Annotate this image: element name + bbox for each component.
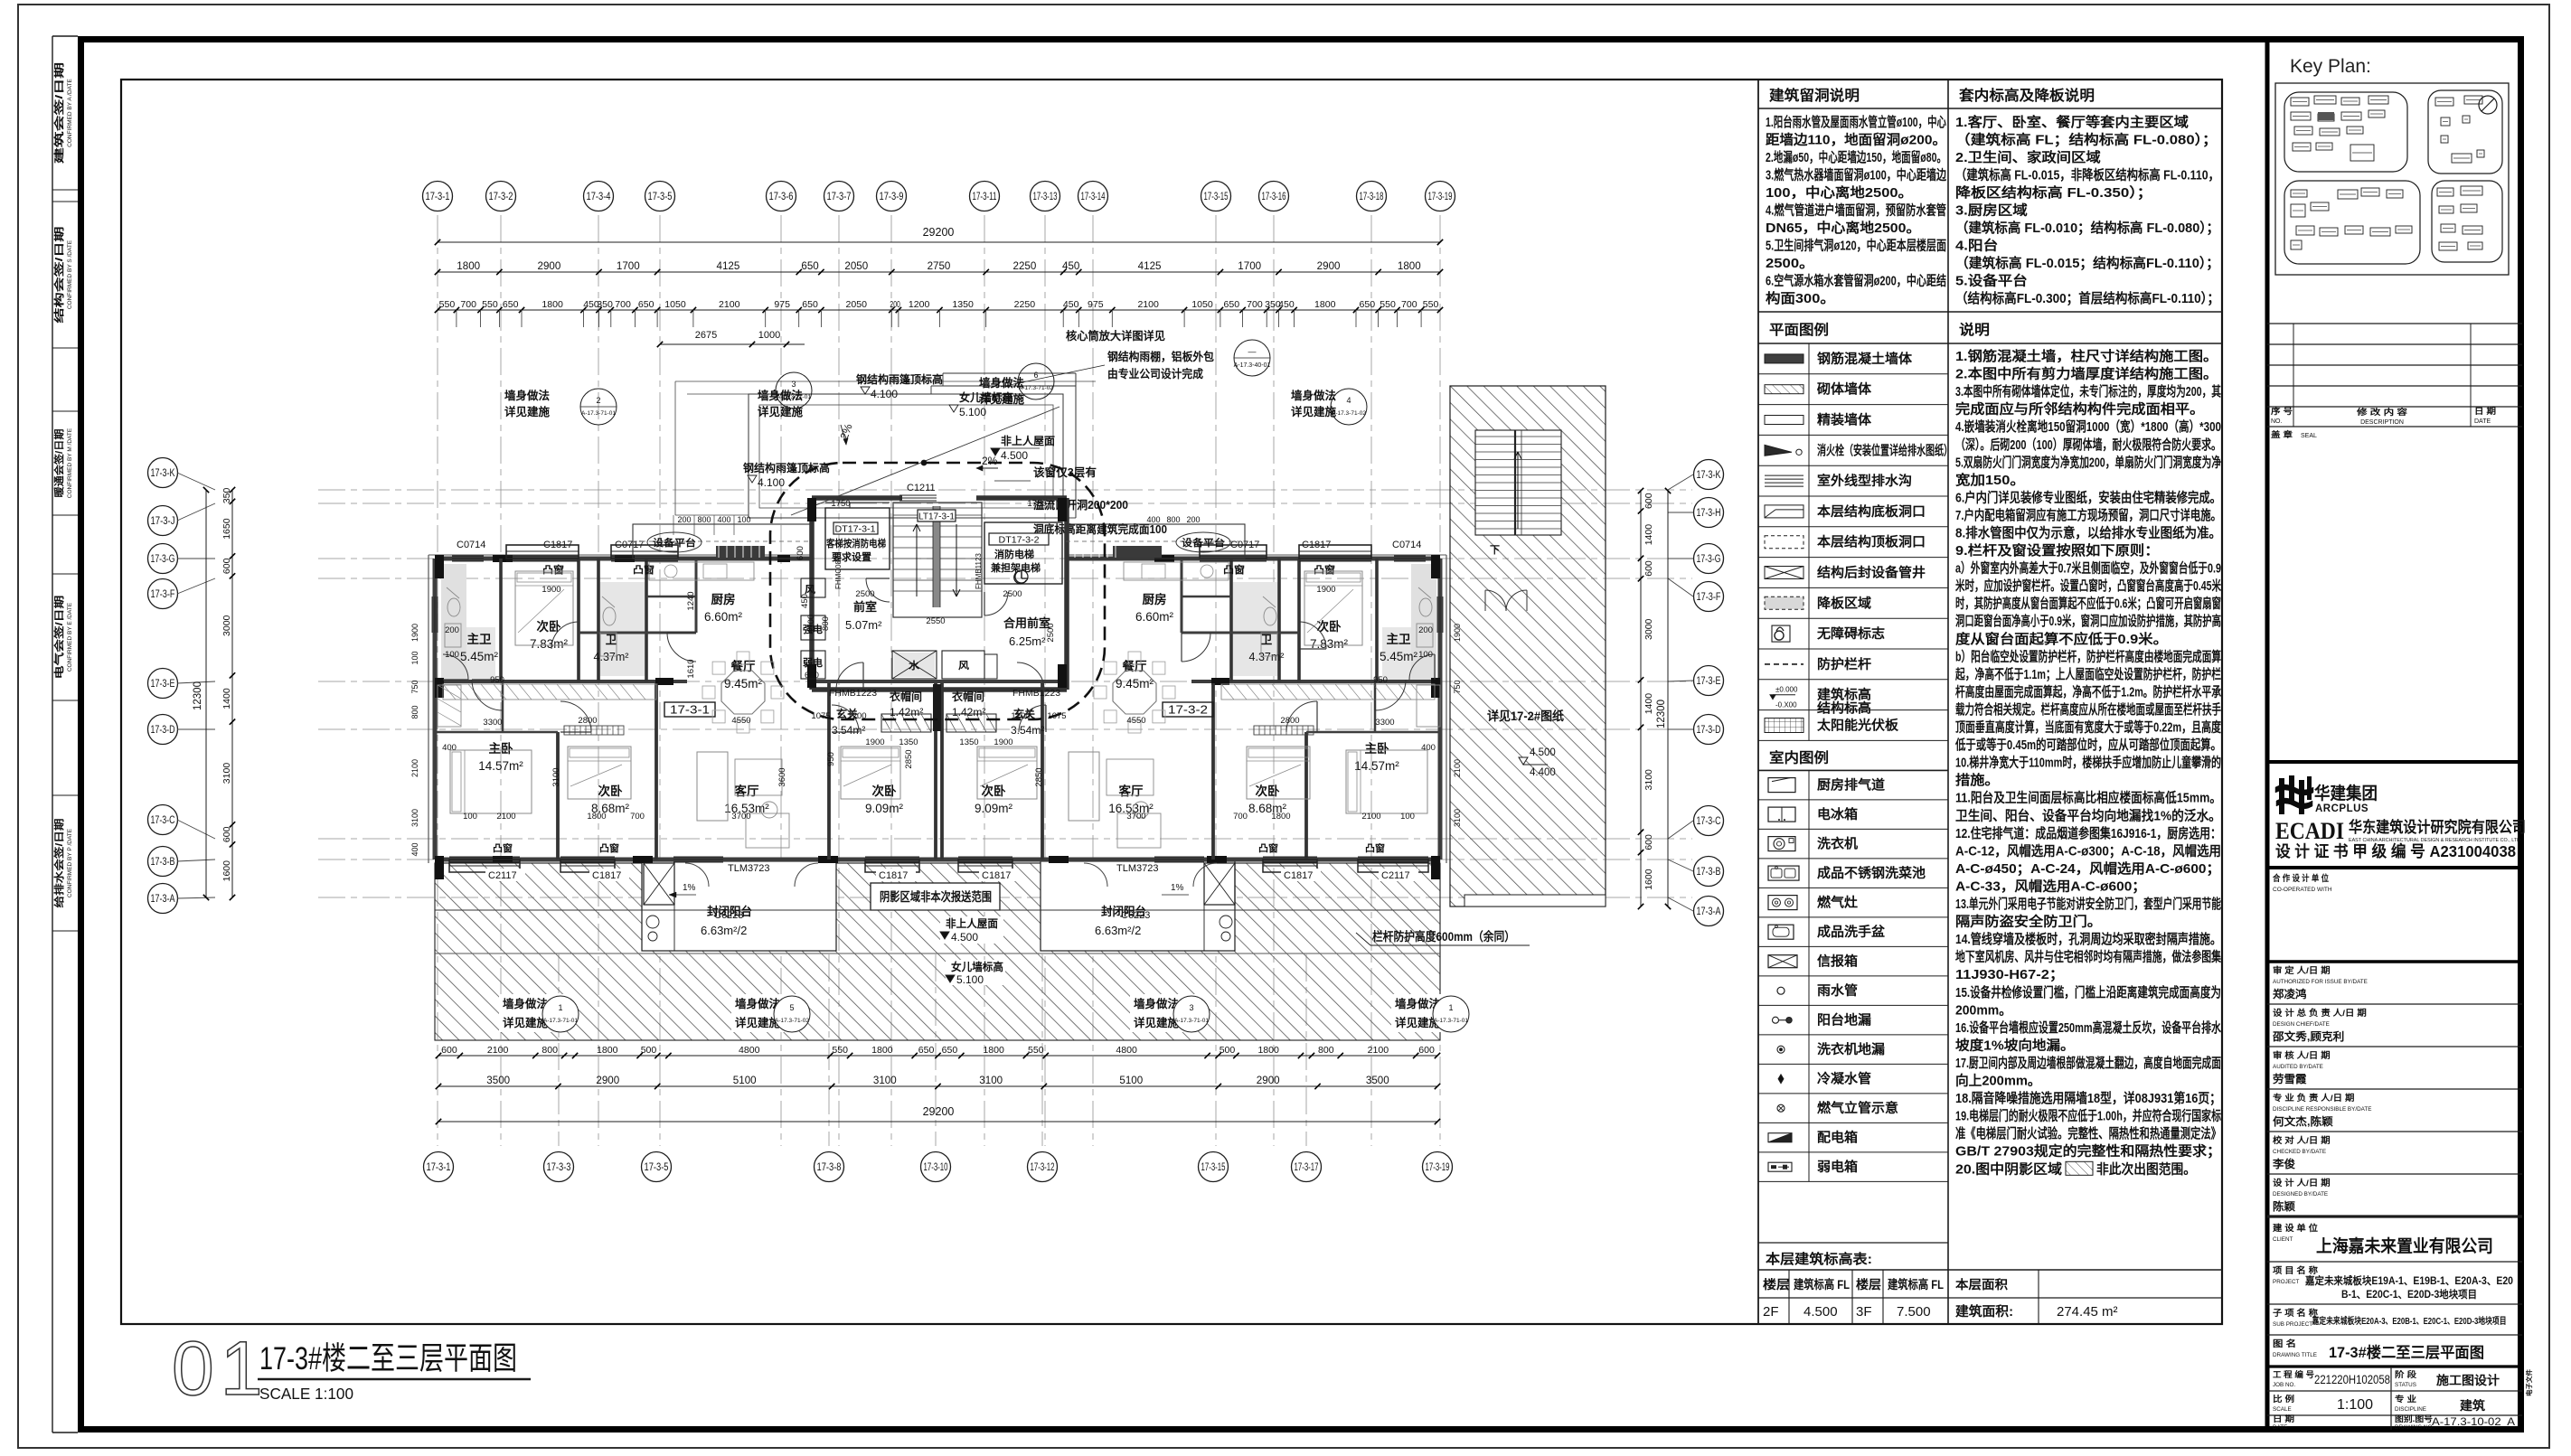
svg-text:1240: 1240 [686, 591, 696, 610]
svg-text:雨水管: 雨水管 [1817, 982, 1858, 999]
balcony shaft boxes [644, 863, 674, 905]
svg-text:5: 5 [789, 1003, 794, 1012]
svg-text:隔声防盗安全防卫门。: 隔声防盗安全防卫门。 [1955, 914, 2102, 930]
svg-text:C0714: C0714 [1392, 540, 1421, 550]
wall detail labels bottom band [499, 994, 566, 1032]
svg-text:详见17-2#图纸: 详见17-2#图纸 [1487, 709, 1564, 723]
svg-text:2800: 2800 [1280, 716, 1299, 726]
svg-text:17-3-2: 17-3-2 [489, 192, 513, 202]
dining table octagon left [721, 671, 765, 714]
svg-text:SUB PROJECT: SUB PROJECT [2273, 1321, 2312, 1328]
svg-text:详见建施: 详见建施 [504, 405, 550, 418]
svg-text:600: 600 [221, 558, 232, 574]
svg-text:1800: 1800 [1257, 1045, 1279, 1056]
closet 衣帽间 pair [881, 714, 931, 732]
svg-text:墙身做法: 墙身做法 [504, 389, 550, 402]
svg-text:次卧: 次卧 [982, 784, 1007, 798]
svg-text:由专业公司设计完成: 由专业公司设计完成 [1107, 367, 1203, 380]
svg-text:卫: 卫 [1261, 634, 1273, 646]
svg-text:设 计 人/日 期: 设 计 人/日 期 [2273, 1178, 2331, 1188]
svg-text:低于或等于0.45m的可踏部位时，应从可踏部位顶面起算。: 低于或等于0.45m的可踏部位时，应从可踏部位顶面起算。 [1954, 737, 2221, 753]
svg-text:砌体墙体: 砌体墙体 [1816, 381, 1872, 398]
svg-text:975: 975 [774, 299, 790, 310]
svg-text:3300: 3300 [483, 718, 502, 728]
revision table [2267, 323, 2522, 324]
svg-text:200: 200 [677, 515, 691, 524]
svg-text:950: 950 [1373, 675, 1388, 685]
grid bubble top 17-3-4 [584, 182, 614, 211]
svg-text:A-17.3-71-02: A-17.3-71-02 [1019, 385, 1053, 391]
svg-text:（结构标高FL-0.300；首层结构标高FL-0.110）；: （结构标高FL-0.300；首层结构标高FL-0.110）； [1955, 290, 2219, 306]
shaft 风 lower [942, 651, 984, 679]
svg-text:2100: 2100 [1137, 299, 1159, 310]
grid bubble bottom 17-3-17 [1292, 1152, 1322, 1182]
svg-text:350: 350 [597, 299, 613, 310]
svg-text:度从窗台面起算不应低于0.9米。: 度从窗台面起算不应低于0.9米。 [1955, 631, 2168, 647]
svg-text:1900: 1900 [410, 624, 419, 642]
svg-text:比 例: 比 例 [2273, 1394, 2294, 1404]
svg-text:800: 800 [1318, 1045, 1334, 1056]
grid bubble top 17-3-7 [824, 182, 854, 211]
svg-text:1700: 1700 [617, 261, 640, 272]
svg-text:4800: 4800 [739, 1045, 760, 1056]
svg-text:本层建筑标高表:: 本层建筑标高表: [1766, 1251, 1872, 1267]
svg-text:5.卫生间排气洞ø120，中心距本层楼层面: 5.卫生间排气洞ø120，中心距本层楼层面 [1766, 238, 1946, 254]
svg-text:550: 550 [1380, 299, 1396, 310]
svg-text:17-3-K: 17-3-K [1697, 470, 1721, 481]
svg-text:平面图例: 平面图例 [1769, 321, 1829, 338]
svg-text:客梯按消防电梯: 客梯按消防电梯 [825, 537, 886, 550]
svg-text:地下室风机房、风井与住宅相邻时均有隔声措施，做法参图集: 地下室风机房、风井与住宅相邻时均有隔声措施，做法参图集 [1955, 949, 2222, 965]
sunken floor gray fill 卫 right [1233, 582, 1277, 676]
interior legend row 洗衣机地漏 [1758, 1063, 1948, 1065]
svg-text:室外线型排水沟: 室外线型排水沟 [1817, 473, 1912, 489]
key plan north arrow [2479, 96, 2497, 114]
svg-text:1900: 1900 [542, 585, 560, 595]
svg-text:AUDITED BY/DATE: AUDITED BY/DATE [2273, 1064, 2323, 1070]
bottom dimension chain axes [438, 1085, 1437, 1087]
svg-text:600: 600 [1418, 1045, 1435, 1056]
interior legend row 阳台地漏 [1758, 1034, 1948, 1036]
svg-text:2100: 2100 [410, 759, 419, 777]
svg-text:1350: 1350 [952, 299, 974, 310]
grid bubble top 17-3-1 [423, 182, 453, 211]
svg-text:650: 650 [1224, 299, 1240, 310]
svg-text:700: 700 [1401, 299, 1417, 310]
roof slope diagonal [791, 407, 1059, 515]
interior partition walls upper band [499, 559, 503, 681]
svg-text:设 计 证 书 甲 级 编 号 A231004038: 设 计 证 书 甲 级 编 号 A231004038 [2275, 842, 2516, 860]
svg-text:17-3-B: 17-3-B [151, 857, 175, 868]
svg-text:SCALE: SCALE [2273, 1406, 2292, 1413]
svg-text:结构标高: 结构标高 [1817, 700, 1871, 717]
grid bubble bottom 17-3-1 [424, 1152, 454, 1182]
svg-text:1.42m²: 1.42m² [890, 706, 923, 719]
svg-text:次卧: 次卧 [598, 784, 624, 798]
right stair block door [1485, 590, 1506, 611]
level mark 4.500 4.400 [1519, 757, 1528, 765]
svg-text:降板区结构标高 FL-0.350）；: 降板区结构标高 FL-0.350）； [1955, 184, 2152, 201]
svg-text:10.梯井净宽大于110mm时，楼梯扶手应增加防止儿童攀滑的: 10.梯井净宽大于110mm时，楼梯扶手应增加防止儿童攀滑的 [1955, 755, 2221, 771]
svg-text:防护栏杆: 防护栏杆 [1817, 656, 1872, 672]
svg-text:17-3-3: 17-3-3 [547, 1162, 571, 1173]
svg-text:建筑标高 FL: 建筑标高 FL [1887, 1277, 1944, 1292]
svg-text:450: 450 [1278, 299, 1295, 310]
svg-text:2850: 2850 [904, 749, 914, 768]
plan legend row 精装墙体 [1758, 434, 1948, 436]
svg-text:17-3-5: 17-3-5 [645, 1162, 669, 1173]
svg-text:1000: 1000 [758, 330, 780, 341]
top dimension chain detail [438, 309, 1440, 311]
svg-text:4.500: 4.500 [1530, 747, 1556, 758]
svg-text:李俊: 李俊 [2272, 1157, 2295, 1170]
svg-text:450: 450 [800, 594, 810, 608]
svg-text:C1817: C1817 [982, 870, 1011, 881]
svg-text:01: 01 [172, 1326, 268, 1411]
elevator DT17-3-2 [984, 522, 1062, 584]
plan legend row 砌体墙体 [1758, 404, 1948, 406]
svg-text:次卧: 次卧 [1317, 619, 1342, 634]
svg-text:1800: 1800 [587, 812, 606, 822]
svg-text:17-3-C: 17-3-C [151, 815, 175, 826]
svg-text:4.400: 4.400 [1530, 767, 1556, 778]
svg-text:1650: 1650 [221, 518, 232, 540]
svg-text:Key Plan:: Key Plan: [2290, 56, 2371, 77]
grid bubble top 17-3-2 [486, 182, 516, 211]
svg-text:楼层: 楼层 [1763, 1277, 1790, 1292]
grid bubble bottom 17-3-10 [921, 1152, 951, 1182]
svg-text:4.燃气管道进户墙面留洞，预留防水套管: 4.燃气管道进户墙面留洞，预留防水套管 [1766, 202, 1946, 219]
svg-text:500: 500 [1220, 1045, 1236, 1056]
interior legend row 配电箱 [1758, 1151, 1948, 1153]
svg-text:1100: 1100 [806, 615, 816, 633]
svg-text:成品洗手盆: 成品洗手盆 [1817, 924, 1886, 940]
interior legend row 弱电箱 [1758, 1180, 1948, 1182]
svg-text:主卧: 主卧 [1365, 741, 1390, 756]
svg-text:1800: 1800 [871, 1045, 893, 1056]
svg-text:4.500: 4.500 [1001, 449, 1028, 462]
svg-text:详见建施: 详见建施 [758, 405, 803, 418]
svg-text:1750: 1750 [831, 499, 850, 509]
svg-text:2100: 2100 [719, 299, 740, 310]
equipment platform left 设备平台 [633, 524, 812, 559]
svg-text:设备平台: 设备平台 [653, 537, 696, 549]
svg-text:200mm。: 200mm。 [1955, 1002, 2011, 1018]
svg-text:3.本图中所有砌体墙体定位，未专门标注的，厚度均为200，其: 3.本图中所有砌体墙体定位，未专门标注的，厚度均为200，其 [1955, 383, 2221, 399]
svg-text:3: 3 [791, 380, 796, 389]
svg-text:2100: 2100 [487, 1045, 509, 1056]
grid bubble left 17-3-F [148, 579, 178, 609]
svg-text:日 期: 日 期 [2474, 406, 2496, 416]
svg-text:DESIGNED BY/DATE: DESIGNED BY/DATE [2273, 1191, 2328, 1198]
svg-text:兼担架电梯: 兼担架电梯 [991, 561, 1041, 574]
interior legend row 厨房排气道 [1758, 799, 1948, 801]
svg-text:1900: 1900 [1453, 624, 1462, 642]
svg-text:800: 800 [1166, 515, 1180, 524]
svg-text:C2117: C2117 [488, 870, 517, 881]
svg-text:DESIGN CHIEF/DATE: DESIGN CHIEF/DATE [2273, 1021, 2330, 1028]
svg-text:1600: 1600 [1643, 869, 1654, 890]
svg-text:600: 600 [441, 1045, 457, 1056]
core outer walls [809, 498, 815, 690]
svg-text:17-3-13: 17-3-13 [1033, 192, 1058, 202]
svg-text:9.45m²: 9.45m² [724, 677, 763, 690]
plan legend row 结构后封设备管井 [1758, 587, 1948, 588]
svg-text:17-3-7: 17-3-7 [827, 192, 852, 202]
svg-text:墙身做法: 墙身做法 [1291, 389, 1336, 402]
bathroom fixtures [447, 598, 460, 616]
core doors [866, 578, 890, 602]
plan legend row 消火栓（安装位置详给排水图纸） [1758, 465, 1948, 466]
svg-text:100: 100 [737, 515, 750, 524]
svg-text:米时，应加设护窗栏杆。设置凸窗时，凸窗窗台高度高于0.45米: 米时，应加设护窗栏杆。设置凸窗时，凸窗窗台高度高于0.45米 [1955, 578, 2222, 594]
svg-text:日 期: 日 期 [2273, 1414, 2294, 1423]
svg-text:17-3-10: 17-3-10 [924, 1162, 948, 1173]
svg-text:650: 650 [1360, 299, 1376, 310]
svg-text:劳雪霞: 劳雪霞 [2273, 1072, 2308, 1085]
svg-text:A-17.3-71-01: A-17.3-71-01 [1434, 1018, 1468, 1024]
svg-text:3500: 3500 [1366, 1076, 1389, 1086]
equipment platform right 设备平台 [1066, 524, 1245, 559]
svg-text:墙身做法: 墙身做法 [1134, 997, 1179, 1010]
svg-text:—: — [1248, 347, 1257, 356]
shaft 弱电 [801, 651, 825, 679]
svg-text:陈颖: 陈颖 [2273, 1199, 2295, 1213]
svg-text:本层面积: 本层面积 [1955, 1277, 2009, 1292]
svg-text:C0714: C0714 [457, 540, 485, 550]
floor level table header 本层建筑标高表 [1758, 1242, 1948, 1244]
svg-text:配电箱: 配电箱 [1817, 1130, 1859, 1146]
svg-text:4.500: 4.500 [1803, 1304, 1838, 1320]
svg-text:12300: 12300 [193, 681, 203, 710]
svg-text:凸窗: 凸窗 [599, 842, 620, 854]
svg-text:华建集团: 华建集团 [2314, 783, 2378, 803]
svg-text:A-17.3-40-01: A-17.3-40-01 [1234, 362, 1271, 369]
svg-text:建筑标高: 建筑标高 [1817, 687, 1871, 703]
grid bubble right 17-3-E [1694, 666, 1724, 696]
svg-text:3300: 3300 [1375, 718, 1394, 728]
signature box CONFIRMED BY S /DATE [52, 201, 78, 202]
svg-text:3000: 3000 [221, 615, 232, 636]
svg-text:17-3#楼二至三层平面图: 17-3#楼二至三层平面图 [2329, 1343, 2484, 1361]
svg-text:1: 1 [1448, 1003, 1453, 1012]
svg-text:厨房: 厨房 [711, 592, 736, 606]
svg-text:时，其防护高度从窗台面算起不应低于0.6米；凸窗可开启窗扇窗: 时，其防护高度从窗台面算起不应低于0.6米；凸窗可开启窗扇窗 [1955, 596, 2221, 612]
interior legend row 燃气立管示意 [1758, 1122, 1948, 1123]
svg-text:3600: 3600 [777, 767, 787, 786]
horizontal grid lines [318, 489, 1692, 491]
furniture beds [515, 571, 573, 645]
svg-text:1.42m²: 1.42m² [952, 706, 985, 719]
svg-text:向上200mm。: 向上200mm。 [1955, 1073, 2041, 1089]
svg-text:400: 400 [1146, 515, 1160, 524]
svg-text:凸窗: 凸窗 [493, 842, 513, 854]
plan legend row 建筑标高 [1758, 709, 1948, 711]
svg-text:2850: 2850 [1034, 767, 1044, 786]
grid bubble left 17-3-B [148, 847, 178, 877]
svg-text:（建筑标高 FL-0.010；结构标高 FL-0.080）；: （建筑标高 FL-0.010；结构标高 FL-0.080）； [1955, 220, 2219, 236]
grid bubble top 17-3-18 [1357, 182, 1387, 211]
svg-text:1800: 1800 [1314, 299, 1336, 310]
svg-text:DATE: DATE [2273, 1424, 2287, 1431]
svg-text:600: 600 [221, 826, 232, 842]
svg-text:17-3-A: 17-3-A [1697, 906, 1721, 917]
svg-text:2550: 2550 [926, 616, 945, 626]
svg-text:500: 500 [641, 1045, 657, 1056]
divider below logos [2267, 866, 2522, 869]
svg-text:650: 650 [638, 299, 655, 310]
svg-text:200: 200 [1186, 515, 1200, 524]
grid bubble bottom 17-3-8 [815, 1152, 844, 1182]
svg-text:1800: 1800 [1271, 812, 1290, 822]
svg-text:郑凌鸿: 郑凌鸿 [2273, 987, 2307, 1000]
svg-text:弱电箱: 弱电箱 [1817, 1159, 1859, 1175]
svg-text:1%: 1% [683, 883, 696, 893]
svg-text:17-3-G: 17-3-G [1697, 554, 1721, 565]
out-of-scope label box 阴影区域非本次报送范围 [871, 883, 1000, 910]
svg-text:650: 650 [918, 1045, 935, 1056]
svg-text:建筑标高 FL: 建筑标高 FL [1793, 1277, 1850, 1292]
svg-text:1400: 1400 [1643, 524, 1654, 546]
svg-text:1.客厅、卧室、餐厅等套内主要区域: 1.客厅、卧室、餐厅等套内主要区域 [1955, 114, 2189, 130]
grid bubble right 17-3-F [1694, 582, 1724, 612]
svg-text:嘉定未来城板块E20A-3、E20B-1、E20C-1、E2: 嘉定未来城板块E20A-3、E20B-1、E20C-1、E20D-3地块项目 [2312, 1315, 2507, 1327]
svg-text:DESCRIPTION: DESCRIPTION [2360, 419, 2404, 426]
key plan site cluster SW [2284, 181, 2420, 264]
svg-text:550: 550 [1028, 1045, 1044, 1056]
svg-text:17-3-2: 17-3-2 [1168, 703, 1208, 717]
svg-text:阳台地漏: 阳台地漏 [1817, 1012, 1871, 1029]
svg-text:950: 950 [490, 675, 504, 685]
svg-text:C1817: C1817 [592, 870, 621, 881]
svg-text:顶面垂直高度计算，当底面有宽度大于或等于0.22m，且高度: 顶面垂直高度计算，当底面有宽度大于或等于0.22m，且高度 [1955, 719, 2222, 736]
svg-text:消防电梯: 消防电梯 [994, 548, 1034, 560]
svg-text:17-3-19: 17-3-19 [1426, 1162, 1450, 1173]
svg-text:650: 650 [503, 299, 519, 310]
top band mini dims [673, 515, 674, 535]
svg-text:封闭阳台: 封闭阳台 [1101, 905, 1146, 918]
svg-text:1800: 1800 [542, 299, 563, 310]
svg-text:AUTHORIZED FOR ISSUE BY/DATE: AUTHORIZED FOR ISSUE BY/DATE [2273, 979, 2368, 985]
svg-text:LT17-3-1: LT17-3-1 [918, 512, 955, 522]
svg-text:1050: 1050 [664, 299, 686, 310]
svg-text:建筑面积:: 建筑面积: [1955, 1303, 2013, 1320]
svg-text:A-17.3-71-01: A-17.3-71-01 [1174, 1018, 1209, 1024]
svg-text:次卧: 次卧 [872, 784, 898, 798]
svg-text:电子文件: 电子文件 [2525, 1369, 2533, 1396]
svg-text:1350: 1350 [899, 737, 918, 747]
svg-text:1900: 1900 [1316, 585, 1335, 595]
svg-text:C2117: C2117 [1381, 870, 1410, 881]
key plan site cluster NW [2284, 92, 2407, 172]
svg-text:墙身做法: 墙身做法 [503, 997, 548, 1010]
svg-text:3100: 3100 [551, 767, 561, 786]
svg-text:4.嵌墙装消火栓离地150留洞1000（宽）*1800（高）: 4.嵌墙装消火栓离地150留洞1000（宽）*1800（高）*300 [1955, 418, 2221, 435]
svg-text:700: 700 [630, 812, 645, 822]
svg-text:阶 段: 阶 段 [2395, 1369, 2417, 1379]
svg-text:450: 450 [1063, 299, 1079, 310]
title strip borders [2265, 39, 2270, 1430]
interior legend row 燃气灶 [1758, 916, 1948, 918]
balcony door arcs [685, 863, 709, 887]
svg-text:700: 700 [460, 299, 476, 310]
top partial dimension 2675 1000 [660, 343, 805, 345]
svg-text:水: 水 [909, 659, 920, 672]
svg-text:（建筑标高 FL-0.015，非降板区结构标高 FL-0.1: （建筑标高 FL-0.015，非降板区结构标高 FL-0.110， [1955, 167, 2219, 183]
key plan site cluster NE [2428, 90, 2502, 174]
svg-text:5.100: 5.100 [959, 406, 986, 418]
svg-text:17-3#楼二至三层平面图: 17-3#楼二至三层平面图 [259, 1341, 517, 1376]
svg-text:17-3-15: 17-3-15 [1204, 192, 1229, 202]
svg-text:1%: 1% [1171, 883, 1184, 893]
svg-text:CONFIRMED BY S /DATE: CONFIRMED BY S /DATE [67, 240, 73, 309]
svg-text:凸窗: 凸窗 [1223, 563, 1245, 576]
svg-text:1:100: 1:100 [2337, 1397, 2373, 1413]
svg-text:ARCPLUS: ARCPLUS [2315, 803, 2369, 814]
svg-text:钢结构雨棚，铝板外包: 钢结构雨棚，铝板外包 [1107, 350, 1214, 363]
svg-text:3500: 3500 [486, 1076, 510, 1086]
svg-text:±0.000: ±0.000 [1775, 686, 1798, 694]
svg-text:主卧: 主卧 [489, 741, 514, 756]
svg-text:650: 650 [802, 299, 818, 310]
furniture sofa and table living rooms [697, 752, 728, 821]
svg-text:（建筑标高 FL；结构标高 FL-0.080）；: （建筑标高 FL；结构标高 FL-0.080）； [1955, 132, 2218, 148]
svg-text:6.空气源水箱水套管留洞ø200，中心距结: 6.空气源水箱水套管留洞ø200，中心距结 [1766, 273, 1946, 289]
svg-text:凸窗: 凸窗 [1258, 842, 1279, 854]
svg-text:29200: 29200 [923, 1105, 955, 1118]
svg-text:17-3-9: 17-3-9 [880, 192, 904, 202]
top overall dimension 29200 [438, 241, 1440, 243]
svg-text:2.地漏ø50，中心距墙边150，地面留ø80。: 2.地漏ø50，中心距墙边150，地面留ø80。 [1766, 149, 1946, 165]
svg-text:杆高度由屋面完成面算起，净高不低于1.2m。防护栏杆水平承: 杆高度由屋面完成面算起，净高不低于1.2m。防护栏杆水平承 [1955, 683, 2221, 700]
svg-text:专 业 负 责 人/日 期: 专 业 负 责 人/日 期 [2273, 1093, 2354, 1104]
svg-text:221220H102058: 221220H102058 [2314, 1373, 2390, 1386]
svg-text:6.户内门详见装修专业图纸，安装由住宅精装修完成。: 6.户内门详见装修专业图纸，安装由住宅精装修完成。 [1955, 489, 2221, 505]
grid bubble top 17-3-15 [1201, 182, 1231, 211]
svg-text:a）外窗室内外高差大于0.7米且侧面临空，及外窗窗台低于0.: a）外窗室内外高差大于0.7米且侧面临空，及外窗窗台低于0.9 [1955, 560, 2221, 577]
svg-text:2100: 2100 [1361, 812, 1380, 822]
svg-text:17-3-E: 17-3-E [1697, 676, 1721, 687]
svg-text:b）阳台临空处设置防护栏杆，防护栏杆高度由楼地面完成面算: b）阳台临空处设置防护栏杆，防护栏杆高度由楼地面完成面算 [1955, 648, 2221, 664]
unit label 17-3-1 [664, 702, 715, 717]
svg-text:A-17.3-71-01: A-17.3-71-01 [777, 394, 811, 400]
svg-text:次卧: 次卧 [1256, 784, 1281, 798]
svg-text:16.设备平台墙根应设置250mm高混凝土反坎，设备平台排水: 16.设备平台墙根应设置250mm高混凝土反坎，设备平台排水 [1955, 1019, 2222, 1036]
svg-text:3F: 3F [1856, 1304, 1872, 1320]
grid bubble left 17-3-G [148, 544, 178, 574]
svg-text:9.09m²: 9.09m² [975, 802, 1013, 815]
svg-text:序 号: 序 号 [2271, 406, 2293, 416]
svg-text:2%: 2% [982, 455, 998, 467]
plan legend row 无障碍标志 [1758, 648, 1948, 650]
svg-text:非上人屋面: 非上人屋面 [946, 916, 998, 930]
svg-text:17-3-12: 17-3-12 [1031, 1162, 1055, 1173]
top dimension chain axes [438, 271, 1440, 273]
svg-text:3100: 3100 [979, 1076, 1003, 1086]
svg-text:4.100: 4.100 [758, 476, 785, 489]
left overall dimension 12300 [205, 490, 207, 897]
window labels bottom [485, 869, 525, 881]
kitchen counters [649, 562, 754, 580]
svg-text:钢筋混凝土墙体: 钢筋混凝土墙体 [1817, 351, 1913, 367]
svg-text:100: 100 [463, 812, 477, 822]
interior doors [472, 680, 503, 710]
left wall windows [431, 596, 433, 633]
svg-text:650: 650 [942, 1045, 958, 1056]
svg-text:准《电梯层门耐火试验。完整性、隔热性和热通量测定法》: 准《电梯层门耐火试验。完整性、隔热性和热通量测定法》 [1955, 1125, 2221, 1141]
plan legend row 太阳能光伏板 [1758, 739, 1948, 741]
section divider above logos [2267, 760, 2522, 764]
